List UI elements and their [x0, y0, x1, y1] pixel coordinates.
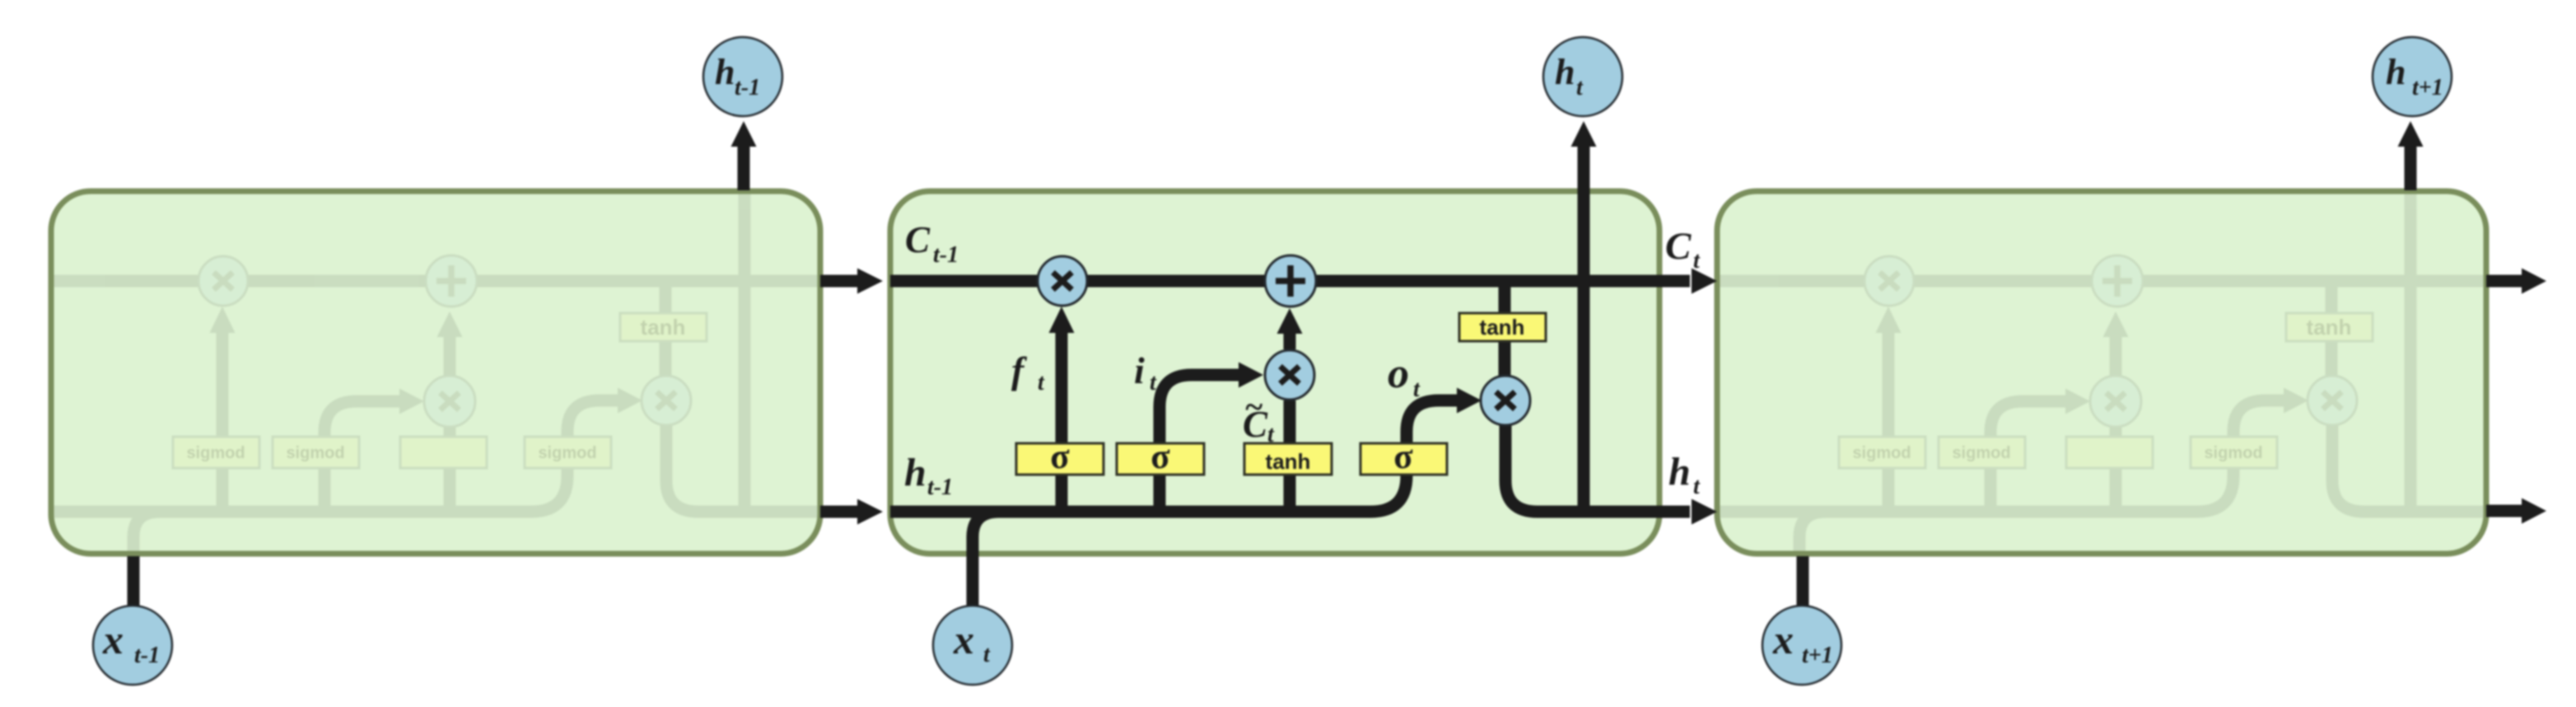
- wire h_t-1 output arrow above cell: [738, 147, 750, 190]
- svg-text:~: ~: [1244, 388, 1263, 425]
- svg-text:h: h: [2386, 52, 2406, 92]
- svg-text:tanh: tanh: [641, 315, 686, 339]
- svg-text:t+1: t+1: [2412, 75, 2443, 101]
- svg-text:sigmod: sigmod: [1952, 444, 2010, 462]
- wire C arrow out of right cell: [2486, 275, 2522, 288]
- svg-text:x: x: [102, 616, 124, 663]
- svg-text:h: h: [1555, 52, 1575, 92]
- svg-text:t: t: [1693, 474, 1701, 499]
- svg-text:sigmod: sigmod: [2204, 444, 2262, 462]
- svg-text:h: h: [904, 451, 926, 494]
- svg-text:t-1: t-1: [933, 242, 959, 268]
- LSTM cell t body: [890, 191, 1659, 554]
- svg-text:h: h: [1668, 450, 1691, 494]
- svg-text:t: t: [983, 642, 991, 667]
- LSTM cell t-1 body: [51, 191, 820, 554]
- wire x_t input stub full: [967, 536, 979, 607]
- svg-text:t: t: [1267, 422, 1275, 447]
- svg-text:t: t: [1576, 75, 1584, 101]
- svg-text:t: t: [1038, 370, 1045, 396]
- svg-text:σ: σ: [1393, 438, 1413, 476]
- svg-text:h: h: [715, 52, 735, 92]
- wire h arrow left cell to center: [820, 506, 857, 518]
- svg-text:i: i: [1134, 349, 1145, 391]
- svg-text:sigmod: sigmod: [1852, 444, 1911, 462]
- svg-text:t-1: t-1: [134, 643, 160, 668]
- node h_t+1 circle: [2373, 37, 2452, 116]
- svg-text:σ: σ: [1050, 438, 1070, 476]
- faded interior t-1: [51, 191, 820, 554]
- wire h arrow out of right cell: [2486, 505, 2522, 517]
- node x_t circle: [933, 606, 1012, 685]
- svg-text:tanh: tanh: [2307, 315, 2352, 339]
- node x_t-1 circle: [93, 606, 172, 685]
- svg-text:t: t: [1150, 370, 1157, 396]
- svg-text:tanh: tanh: [1480, 315, 1525, 339]
- svg-text:t-1: t-1: [735, 75, 760, 101]
- svg-text:σ: σ: [1150, 438, 1170, 476]
- LSTM cell t+1 border: [1717, 191, 2486, 554]
- LSTM cell t-1 border: [51, 191, 820, 554]
- svg-text:x: x: [1772, 616, 1794, 663]
- node h_t-1 circle: [703, 37, 782, 116]
- wire C arrow left cell to center: [820, 275, 857, 288]
- svg-text:t: t: [1693, 248, 1701, 274]
- svg-text:t: t: [1413, 377, 1421, 402]
- LSTM cell t+1 body: [1717, 191, 2486, 554]
- wire x_t+1 input stub: [1797, 556, 1809, 610]
- svg-text:t-1: t-1: [927, 475, 953, 500]
- svg-text:sigmod: sigmod: [186, 444, 245, 462]
- svg-text:tanh: tanh: [1266, 449, 1311, 474]
- svg-text:t+1: t+1: [1802, 643, 1833, 668]
- wire h_t output arrow above cell: [1578, 147, 1590, 191]
- wire C arrow center to right cell: [1659, 275, 1690, 288]
- svg-text:sigmod: sigmod: [538, 444, 596, 462]
- wire h_t+1 output arrow above cell: [2405, 147, 2417, 190]
- svg-text:o: o: [1388, 350, 1409, 397]
- faded interior t+1: [1717, 191, 2486, 554]
- svg-text:x: x: [953, 616, 974, 663]
- node x_t+1 circle: [1762, 606, 1841, 685]
- svg-text:sigmod: sigmod: [286, 444, 344, 462]
- wire h arrow center to right cell: [1659, 506, 1690, 518]
- LSTM cell t border: [890, 191, 1659, 554]
- svg-text:C: C: [905, 219, 931, 260]
- wire x_t-1 input stub: [128, 556, 140, 610]
- node h_t circle top: [1543, 37, 1622, 116]
- svg-text:C: C: [1665, 225, 1692, 268]
- interior t: [890, 191, 1659, 554]
